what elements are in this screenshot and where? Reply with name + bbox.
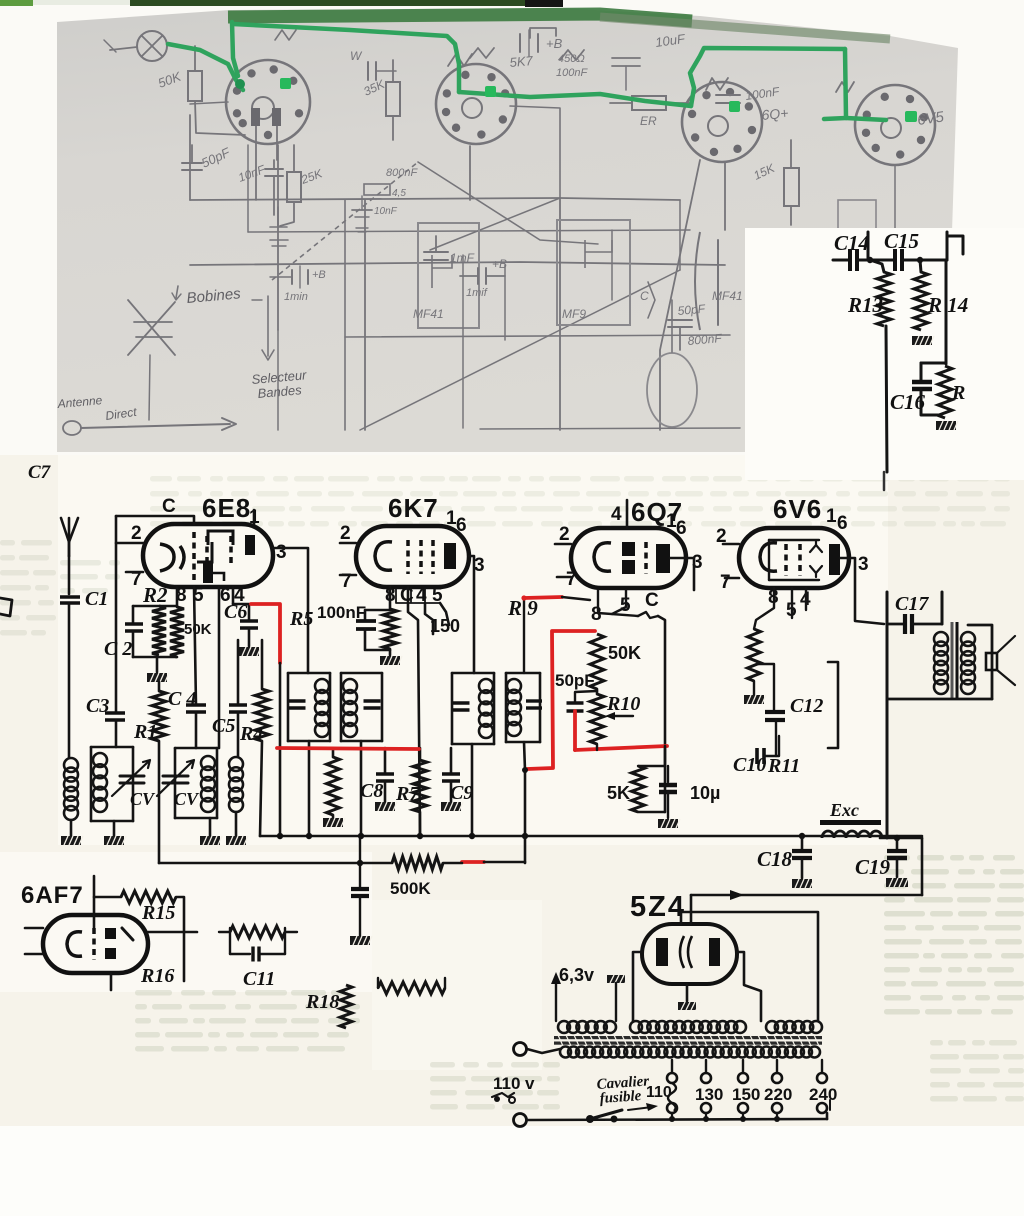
6Q7 grid bbox=[644, 542, 648, 574]
resistor R7 bbox=[413, 748, 427, 836]
tap junction 110 bbox=[669, 1116, 675, 1122]
output transformer core bbox=[952, 622, 957, 700]
wire left rail bbox=[115, 516, 118, 713]
wire fragment top stub 2 bbox=[946, 232, 949, 260]
mains plug symbol bbox=[492, 1093, 515, 1103]
bus junction 4 bbox=[417, 833, 423, 839]
wire R9 bbox=[523, 597, 525, 673]
capacitor C15 bbox=[870, 249, 947, 271]
HT bus wire bbox=[691, 894, 922, 897]
faint print-through text left edge bbox=[0, 540, 56, 636]
svg-text:1: 1 bbox=[826, 506, 837, 527]
wire 6AF7 bottom stub bbox=[110, 973, 113, 990]
tap wire 220 bbox=[776, 1060, 778, 1073]
svg-text:v: v bbox=[525, 1074, 535, 1093]
wire 6V6 pin5 down bbox=[791, 588, 793, 618]
left edge mark bbox=[0, 598, 12, 616]
pencil tube socket 1 bbox=[226, 60, 310, 144]
capacitor C9 bbox=[441, 748, 463, 811]
svg-text:C11: C11 bbox=[243, 968, 275, 990]
main ground bus bbox=[260, 835, 922, 838]
pencil tube socket 4 bbox=[855, 85, 935, 165]
wire 6K7 anode out bbox=[469, 556, 474, 673]
wire B plus vertical bbox=[886, 592, 889, 699]
IF1 secondary coil bbox=[343, 679, 357, 737]
wire fragment right vertical bbox=[945, 260, 948, 364]
pencil wire bottom left vert bbox=[277, 330, 279, 430]
ground under R15b bbox=[936, 421, 958, 430]
heater winding 2 bbox=[766, 1021, 822, 1033]
tap wire 240 bbox=[821, 1060, 823, 1073]
green screen bar middle bbox=[33, 0, 133, 5]
svg-text:800nF: 800nF bbox=[386, 167, 418, 179]
6E8 grid arc bbox=[180, 546, 184, 569]
bus junction 5 bbox=[469, 833, 475, 839]
wire pin1 stub bbox=[253, 510, 256, 524]
wire box1 to ground bbox=[113, 821, 116, 836]
svg-text:C19: C19 bbox=[855, 855, 891, 879]
svg-text:R18: R18 bbox=[305, 991, 339, 1013]
wire right loop bbox=[921, 838, 924, 895]
svg-text:MF41: MF41 bbox=[712, 289, 743, 303]
red wire R9 to 6Q7 bbox=[524, 597, 562, 598]
pencil wire long horizontal 2 bbox=[190, 262, 725, 265]
svg-text:6: 6 bbox=[837, 513, 848, 534]
tap junction 220 bbox=[774, 1116, 780, 1122]
pot wiper bbox=[757, 664, 774, 712]
pencil wire vertical x680 bbox=[679, 200, 681, 270]
svg-text:+B: +B bbox=[312, 269, 326, 281]
green dot socket1 bbox=[280, 78, 291, 89]
pencil top comp bbox=[350, 49, 396, 80]
wire fragment corner bracket bbox=[947, 236, 963, 254]
svg-text:5K: 5K bbox=[607, 783, 630, 803]
svg-text:50K: 50K bbox=[608, 643, 641, 663]
coil in box2 bbox=[201, 756, 215, 812]
junction exc bbox=[894, 835, 900, 841]
transformer core bbox=[554, 1035, 822, 1046]
terminal circle top bbox=[514, 1043, 527, 1056]
white patch 6AF7 area bbox=[0, 852, 372, 992]
red wire lower run bbox=[575, 746, 667, 750]
green dot socket4 bbox=[905, 111, 917, 122]
wire C11 right stub bbox=[285, 931, 297, 933]
pencil socket2 wires bbox=[469, 146, 471, 200]
pencil wire left vertical 1 bbox=[189, 115, 191, 200]
pencil IF transformer bbox=[695, 232, 773, 330]
wire transformer top bbox=[968, 625, 992, 699]
green trace up and over bbox=[690, 48, 845, 106]
capacitor 10u bbox=[659, 766, 677, 818]
tube 6AF7 envelope bbox=[43, 915, 148, 973]
svg-text:R13: R13 bbox=[847, 293, 883, 317]
pencil socket1 pin bars bbox=[251, 108, 281, 126]
6V6 screen box bbox=[769, 540, 819, 580]
svg-text:2: 2 bbox=[559, 524, 570, 545]
wire 5Z4 left bbox=[633, 952, 642, 1021]
IF1 primary box bbox=[288, 673, 330, 741]
green screen bar dark bbox=[130, 0, 525, 6]
6V6 anode plate bbox=[829, 544, 840, 575]
resistor R14 bbox=[914, 260, 928, 330]
wire B plus down bbox=[886, 699, 889, 838]
wire avc to ground bus bbox=[524, 836, 527, 863]
wire pin2 6E8 bbox=[116, 542, 143, 545]
6AF7 cathode bbox=[67, 932, 82, 957]
svg-text:500K: 500K bbox=[390, 879, 431, 898]
svg-text:C 2: C 2 bbox=[104, 638, 132, 660]
resistor 50K cathode bbox=[170, 607, 184, 657]
svg-text:7: 7 bbox=[720, 572, 731, 593]
svg-text:C16: C16 bbox=[890, 390, 926, 414]
wire pin left 2 6AF7 bbox=[25, 953, 43, 956]
tube 6Q7 envelope bbox=[571, 528, 686, 588]
svg-text:6: 6 bbox=[676, 518, 687, 539]
capacitor C4 bbox=[186, 705, 206, 748]
svg-text:C8: C8 bbox=[360, 780, 383, 802]
capacitor C19 bbox=[886, 838, 908, 887]
wire 6K7 pinC down bbox=[408, 587, 420, 836]
ground 5Z4 center bbox=[678, 1002, 700, 1010]
capacitor C2 bbox=[125, 606, 143, 657]
svg-text:+B: +B bbox=[546, 36, 563, 51]
tap circle 150 top bbox=[738, 1073, 748, 1083]
6Q7 diode plate 1 bbox=[622, 542, 635, 556]
ground under R14 bbox=[912, 336, 934, 345]
tap circle 130 bottom bbox=[701, 1103, 711, 1113]
pencil battery E bbox=[270, 266, 326, 303]
svg-text:C7: C7 bbox=[28, 462, 52, 483]
6V6 grid 1 bbox=[784, 544, 788, 576]
pencil wire socket3 stem bbox=[671, 300, 673, 352]
svg-text:7: 7 bbox=[566, 569, 577, 590]
wire mains right up bbox=[826, 1113, 829, 1119]
pencil lamp symbol bbox=[104, 31, 167, 61]
pencil antenne direct bbox=[56, 393, 236, 435]
pencil wire socket1 left bbox=[190, 102, 228, 104]
wire pin7 6Q7 bbox=[557, 576, 571, 579]
svg-text:2: 2 bbox=[131, 523, 142, 544]
wire avc cap down bbox=[359, 837, 361, 889]
svg-text:C: C bbox=[162, 496, 176, 517]
pencil top comp2 bbox=[612, 58, 640, 90]
tube 6E8 envelope bbox=[143, 524, 273, 587]
wire 6Q7 anode out bbox=[670, 558, 694, 590]
avc bus right 2 bbox=[484, 861, 525, 864]
wire pin4 down bbox=[232, 587, 235, 604]
wire 6E8 grid top bbox=[116, 516, 194, 524]
tap circle 110 top bbox=[667, 1073, 677, 1083]
ground heater bbox=[607, 975, 629, 983]
pencil battery +B bbox=[520, 30, 588, 79]
pencil squiggle 6E8 bbox=[560, 50, 584, 60]
6Q7 bracket pinch bbox=[638, 612, 658, 618]
wire R2 top bbox=[133, 605, 177, 608]
tap circle 240 bottom bbox=[817, 1103, 827, 1113]
avc bus bbox=[159, 862, 392, 865]
pencil wire top x248 bbox=[247, 145, 249, 232]
6E8 anode plate 2 bbox=[203, 563, 213, 583]
svg-text:220: 220 bbox=[764, 1085, 792, 1104]
tick 240 bbox=[829, 1100, 831, 1110]
resistor R15 bbox=[94, 891, 184, 981]
svg-text:6V6: 6V6 bbox=[773, 494, 822, 524]
tuned circuit box 2 bbox=[175, 748, 217, 818]
IF2 primary coil bbox=[479, 679, 493, 738]
fusible link bbox=[668, 1083, 676, 1111]
green band on photo top bbox=[228, 14, 692, 21]
svg-text:C17: C17 bbox=[895, 593, 929, 615]
bus junction 7 bbox=[799, 833, 805, 839]
svg-text:130: 130 bbox=[695, 1085, 723, 1104]
wire red to bus black bbox=[279, 663, 282, 836]
bus junction 3 bbox=[358, 833, 364, 839]
svg-text:C6: C6 bbox=[224, 601, 247, 623]
wire pin7 6K7 bbox=[340, 574, 356, 577]
svg-text:ER: ER bbox=[640, 114, 657, 128]
pencil wire right vertical bbox=[724, 162, 726, 230]
pencil resistor 15K bbox=[751, 140, 799, 225]
svg-text:C9: C9 bbox=[450, 782, 473, 804]
output transformer secondary bbox=[961, 632, 975, 694]
tap junction 150 bbox=[740, 1116, 746, 1122]
svg-text:8: 8 bbox=[591, 604, 602, 625]
pencil scribble socket3 top bbox=[706, 78, 728, 90]
resistor under IF1 bbox=[323, 748, 345, 827]
6V6 beam plates bbox=[810, 541, 822, 577]
green trace to socket4 bbox=[846, 118, 886, 120]
white patch bottom strip bbox=[0, 1126, 1024, 1216]
svg-text:CV: CV bbox=[174, 789, 200, 809]
wire 6E8 anode out bbox=[273, 548, 308, 673]
faint print-through text upper bbox=[150, 476, 1010, 527]
svg-text:50pF: 50pF bbox=[555, 671, 595, 690]
capacitor C10 bbox=[757, 736, 779, 764]
wire pin left 1 6AF7 bbox=[25, 927, 43, 930]
pencil diagonal X2 bbox=[418, 162, 598, 244]
pencil wire horizontal 4 bbox=[248, 230, 690, 232]
6K7 grid 2 bbox=[419, 540, 423, 574]
wire 5Z4 right bbox=[737, 952, 761, 1021]
green trace top run bbox=[233, 24, 459, 92]
wire box2 to ground bbox=[209, 818, 212, 836]
green dot socket2 bbox=[485, 86, 496, 97]
pencil wire vertical x505 bbox=[504, 265, 506, 340]
svg-text:1mif: 1mif bbox=[466, 287, 488, 299]
capacitor 100nF bbox=[356, 610, 390, 650]
svg-text:6E8: 6E8 bbox=[202, 493, 251, 523]
wire 6K7 pin8 down bbox=[389, 587, 392, 609]
pencil diagonal wire 2 bbox=[430, 198, 560, 250]
6E8 top bracket bbox=[208, 531, 233, 545]
pencil box 45 bbox=[364, 184, 406, 199]
white patch central schematic bbox=[58, 455, 888, 845]
6V6 grid 2 bbox=[798, 544, 802, 576]
faint print-through text bottom bbox=[430, 1062, 560, 1110]
printed page cream area right top bbox=[745, 228, 1024, 480]
green trace right descent bbox=[824, 49, 846, 119]
green trace vertical stub bbox=[232, 22, 238, 76]
capacitor C6 bbox=[240, 621, 258, 646]
5Z4 filament bbox=[680, 936, 692, 968]
svg-text:6,3v: 6,3v bbox=[559, 965, 594, 985]
6E8 cathode bbox=[160, 544, 174, 571]
wire fragment bottom continuation bbox=[883, 472, 886, 490]
resistor R15b bbox=[938, 366, 952, 418]
6Q7 cathode bbox=[594, 543, 611, 571]
pencil MF box 2 bbox=[557, 220, 630, 325]
svg-text:1min: 1min bbox=[284, 291, 308, 303]
tap circle 220 bottom bbox=[772, 1103, 782, 1113]
tube 6K7 envelope bbox=[356, 526, 469, 587]
capacitor C11 bbox=[230, 947, 285, 962]
wire speaker right vertical bbox=[941, 592, 944, 624]
pencil cap ground mid bbox=[352, 196, 398, 232]
red wire corner to 50K bbox=[527, 631, 595, 769]
6AF7 deflector bbox=[122, 928, 133, 940]
red wire under IF1 bbox=[277, 748, 419, 749]
wire 5Z4 center tap bbox=[686, 984, 689, 1001]
wire R1 down to bus bbox=[158, 741, 161, 863]
pencil wire vertical x612 bbox=[611, 230, 613, 300]
wire 6K7 pin4 down bbox=[425, 603, 433, 634]
pencil cap 100nF top bbox=[716, 84, 781, 103]
IF1 primary coil bbox=[315, 679, 329, 737]
wire 6V6 pin8 down bbox=[754, 588, 774, 629]
wire R10 bottom bbox=[596, 744, 598, 750]
resistor bottom horizontal bbox=[378, 978, 445, 994]
svg-text:MF41: MF41 bbox=[413, 307, 444, 321]
6E8 mid step bbox=[197, 542, 212, 562]
wire pin7 6V6 bbox=[725, 577, 739, 580]
bus junction 2 bbox=[306, 833, 312, 839]
resistor R10 bbox=[590, 689, 604, 744]
svg-text:110: 110 bbox=[493, 1074, 520, 1093]
red wire junction R9 bbox=[521, 595, 526, 600]
R10 wiper arrow bbox=[605, 712, 633, 720]
wire pin2 6Q7 bbox=[555, 543, 571, 546]
resistor R13 bbox=[870, 260, 891, 326]
6AF7 target 2 bbox=[105, 948, 116, 959]
switch bbox=[586, 1110, 622, 1123]
svg-text:C5: C5 bbox=[212, 715, 235, 737]
tap stub 150 bbox=[742, 1113, 744, 1119]
ground C6 bbox=[239, 647, 261, 656]
svg-text:4,5: 4,5 bbox=[392, 188, 406, 199]
pencil cap 50pF right bbox=[668, 320, 692, 350]
tap stub 220 bbox=[776, 1113, 778, 1119]
capacitor C3 bbox=[105, 713, 125, 747]
tap junction 130 bbox=[703, 1116, 709, 1122]
tap wire 150 bbox=[742, 1060, 744, 1073]
tuned circuit box 1 bbox=[91, 747, 133, 821]
wire 6Q7 pin8 bracket bbox=[598, 590, 638, 616]
6K7 anode plate bbox=[444, 543, 456, 569]
svg-text:100nF: 100nF bbox=[556, 67, 588, 79]
pencil resistor box 25K bbox=[270, 145, 325, 246]
pencil resistor 35K bbox=[361, 60, 400, 140]
wire 6Q7 pin4 top bbox=[626, 500, 629, 528]
HV winding bbox=[630, 1021, 746, 1033]
ground pot bbox=[744, 681, 766, 704]
svg-text:R7: R7 bbox=[395, 783, 420, 805]
field coil Exc bbox=[822, 831, 882, 838]
green trace lamp to socket1 bbox=[168, 44, 243, 90]
capacitor avc bbox=[350, 889, 372, 945]
svg-text:4: 4 bbox=[611, 504, 622, 525]
wire to ground R2 bbox=[156, 657, 159, 672]
resistor 6K7 cathode res bbox=[383, 609, 397, 649]
resistor 500K bbox=[392, 857, 443, 870]
wire pin5 down bbox=[194, 587, 196, 705]
wire 63v arrow bbox=[551, 972, 561, 1021]
faint print-through text mid bbox=[60, 560, 120, 594]
svg-text:C1: C1 bbox=[85, 588, 108, 610]
svg-text:6AF7: 6AF7 bbox=[21, 882, 84, 909]
svg-text:110: 110 bbox=[646, 1084, 672, 1101]
IF2 secondary coil bbox=[507, 679, 521, 736]
6K7 cathode bbox=[375, 542, 392, 570]
wire IF1 primary down bbox=[308, 741, 311, 836]
6E8 grid 1 bbox=[192, 532, 196, 580]
ground 6K7 cathode bbox=[380, 649, 402, 665]
pencil squiggle top2 bbox=[836, 82, 854, 92]
pencil MF box 1 bbox=[418, 223, 479, 328]
6AF7 target 1 bbox=[105, 928, 116, 939]
svg-text:R: R bbox=[951, 382, 965, 404]
svg-text:6Q+: 6Q+ bbox=[761, 105, 789, 123]
svg-text:6: 6 bbox=[456, 515, 467, 536]
wire 6K7 pin5 down bbox=[440, 603, 449, 625]
variable capacitor CV2 bbox=[157, 760, 194, 796]
antenna coil bbox=[64, 758, 78, 836]
pencil squiggle top1 bbox=[470, 48, 494, 58]
white patch mid bottom bbox=[372, 900, 542, 1070]
green blob junction bbox=[235, 79, 245, 89]
avc junction bbox=[357, 860, 363, 866]
bus junction 1 bbox=[277, 833, 283, 839]
tap circle 240 top bbox=[817, 1073, 827, 1083]
tap wire 110 bbox=[671, 1060, 673, 1073]
IF2 primary cap bbox=[453, 701, 470, 704]
faint print-through text lower left bbox=[135, 990, 360, 1052]
wire primary left bbox=[527, 1049, 560, 1053]
svg-text:150: 150 bbox=[732, 1085, 760, 1104]
svg-text:240: 240 bbox=[809, 1085, 837, 1104]
tap circle 110 bottom bbox=[667, 1103, 677, 1113]
wire exc right bbox=[880, 837, 922, 840]
capacitor C14 bbox=[833, 249, 870, 271]
svg-text:R15: R15 bbox=[141, 902, 175, 924]
pencil wire long horizontal 1 bbox=[190, 198, 680, 200]
tap stub 110 bbox=[671, 1113, 673, 1119]
green screen bar left bbox=[0, 0, 33, 6]
red wire at C6 bbox=[251, 604, 280, 663]
heater winding 1 bbox=[558, 1021, 616, 1033]
svg-text:C: C bbox=[645, 590, 659, 611]
wire 6AF7 plate out bbox=[148, 931, 197, 934]
svg-text:3: 3 bbox=[474, 555, 485, 576]
wire 6V6 pin4 down bbox=[805, 588, 807, 610]
mains bottom wire bbox=[527, 1119, 827, 1120]
red junction dot bbox=[522, 767, 528, 773]
tap circle 150 bottom bbox=[738, 1103, 748, 1113]
red wire 50pF down bbox=[573, 711, 577, 750]
svg-text:R11: R11 bbox=[767, 755, 800, 777]
svg-text:fusible: fusible bbox=[599, 1088, 642, 1107]
resistor R2 bbox=[152, 606, 166, 655]
svg-text:R1: R1 bbox=[133, 721, 157, 743]
